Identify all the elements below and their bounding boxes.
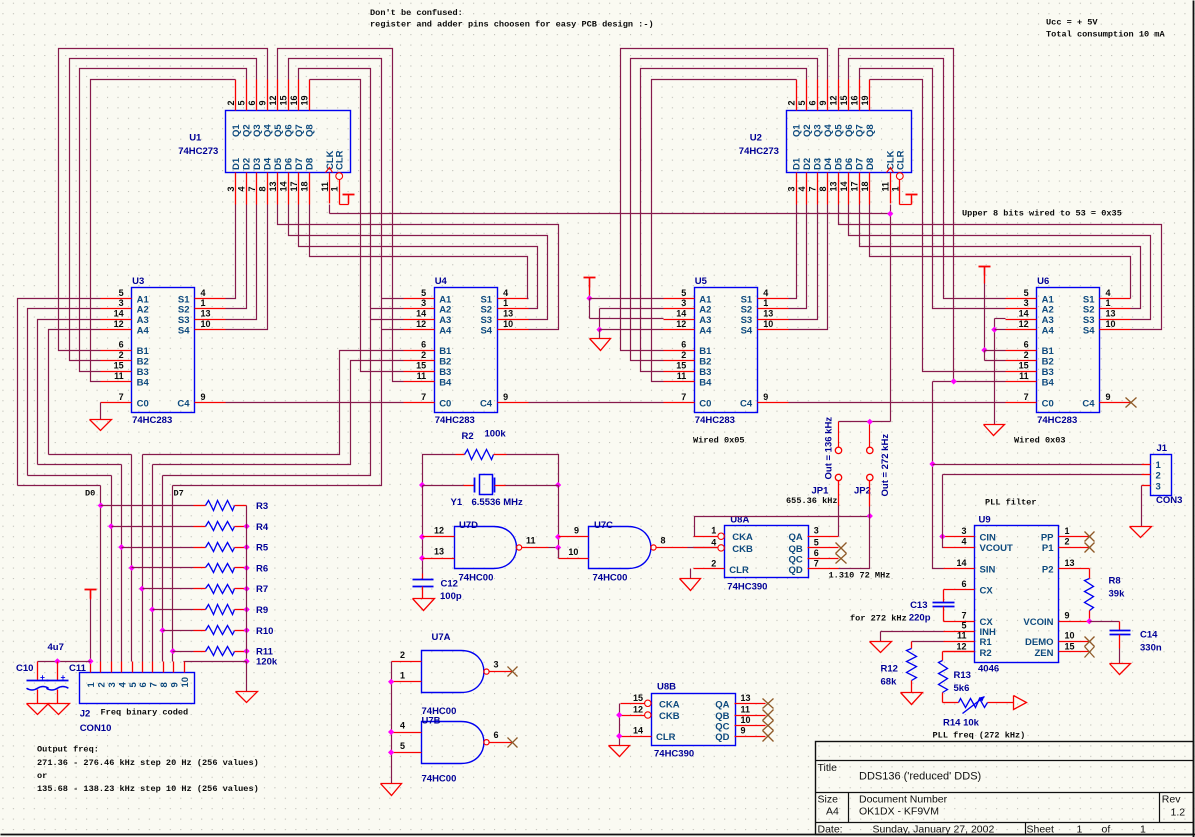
svg-text:Output freq:: Output freq:: [37, 745, 99, 755]
svg-text:13: 13: [201, 309, 211, 319]
U3.C0 to ground: [90, 403, 112, 431]
svg-text:10: 10: [503, 319, 513, 329]
svg-text:3: 3: [119, 298, 124, 308]
svg-text:Freq binary coded: Freq binary coded: [101, 708, 189, 718]
svg-text:10: 10: [1106, 319, 1116, 329]
svg-text:U5: U5: [695, 276, 708, 287]
svg-text:7: 7: [421, 392, 426, 402]
svg-text:1: 1: [330, 186, 340, 191]
U5 A2/A4 to ground: [590, 309, 664, 351]
svg-text:A1: A1: [1042, 294, 1055, 305]
svg-text:D7: D7: [174, 488, 184, 498]
svg-text:7: 7: [1024, 392, 1029, 402]
svg-text:1: 1: [86, 682, 97, 688]
wire U1.Q4 to U3.B1: [59, 49, 268, 351]
svg-text:D7: D7: [855, 158, 866, 170]
svg-text:Rev: Rev: [1162, 794, 1181, 806]
svg-text:11: 11: [957, 631, 967, 641]
svg-text:74HC283: 74HC283: [435, 415, 475, 426]
svg-text:18: 18: [860, 181, 870, 191]
svg-text:A2: A2: [699, 305, 711, 316]
svg-text:135.68 - 138.23 kHz step 10 Hz: 135.68 - 138.23 kHz step 10 Hz (256 valu…: [37, 784, 259, 794]
resistor R13 5k6 and R14 pot: [933, 652, 1027, 741]
svg-text:QB: QB: [715, 711, 729, 722]
svg-text:15: 15: [1065, 641, 1075, 651]
svg-text:3: 3: [787, 186, 797, 191]
svg-text:R6: R6: [256, 563, 268, 574]
svg-text:B2: B2: [699, 357, 711, 368]
svg-text:330n: 330n: [1140, 643, 1162, 654]
svg-text:C0: C0: [699, 398, 711, 409]
counter U8B 74HC390: [621, 682, 766, 760]
svg-text:S4: S4: [178, 326, 190, 337]
svg-text:655.36 kHz: 655.36 kHz: [786, 496, 838, 506]
adder U5 74HC283: [664, 276, 789, 426]
svg-text:QC: QC: [789, 554, 803, 565]
svg-text:A4: A4: [137, 326, 150, 337]
connector J2 CON10: [80, 662, 195, 735]
net D1 vertical: [111, 476, 113, 662]
svg-text:A1: A1: [137, 294, 150, 305]
svg-text:6: 6: [961, 579, 966, 589]
svg-text:10: 10: [763, 319, 773, 329]
svg-text:74HC283: 74HC283: [132, 415, 172, 426]
svg-text:6: 6: [808, 100, 818, 105]
wire U1.D8 to U4.S1: [310, 205, 529, 299]
svg-text:D2: D2: [242, 158, 253, 170]
jumper JP1: [812, 447, 842, 496]
svg-text:B1: B1: [137, 346, 150, 357]
counter U8A 74HC390: [694, 514, 839, 592]
svg-text:S4: S4: [1083, 326, 1095, 337]
svg-text:QD: QD: [715, 732, 729, 743]
svg-text:10: 10: [741, 715, 751, 725]
resistor R6: [132, 563, 269, 574]
connector J1 CON3: [1142, 443, 1183, 506]
svg-text:Q6: Q6: [844, 124, 855, 137]
svg-text:Don't be confused:: Don't be confused:: [370, 8, 463, 18]
svg-text:Document Number: Document Number: [859, 794, 948, 806]
svg-text:14: 14: [633, 726, 643, 736]
svg-text:3: 3: [961, 526, 966, 536]
svg-text:QB: QB: [789, 544, 803, 555]
U6 A3/A4 to ground: [984, 319, 1006, 436]
svg-text:Q5: Q5: [834, 124, 845, 137]
svg-text:C0: C0: [137, 398, 149, 409]
svg-text:R10: R10: [256, 626, 273, 637]
svg-text:S1: S1: [178, 294, 190, 305]
svg-text:for 272 kHz: for 272 kHz: [850, 614, 907, 624]
svg-text:D6: D6: [844, 158, 855, 170]
svg-text:9: 9: [763, 392, 768, 402]
svg-text:Ucc = + 5V: Ucc = + 5V: [1046, 18, 1098, 28]
svg-text:6: 6: [247, 100, 257, 105]
resistor R7: [143, 584, 269, 595]
capacitor C13 220p: [909, 590, 955, 624]
wire U1.Q5 to U4.B4: [278, 49, 404, 382]
svg-text:39k: 39k: [1109, 589, 1126, 600]
register U2 74HC273: [739, 80, 912, 205]
svg-text:B3: B3: [137, 367, 149, 378]
svg-text:R4: R4: [256, 522, 269, 533]
svg-text:4: 4: [201, 288, 206, 298]
svg-text:74HC390: 74HC390: [727, 581, 767, 592]
U9 CIN/VCOUT to J1.2 net: [939, 475, 945, 548]
wire U3.S4 to U1.D4: [226, 205, 268, 330]
svg-text:2: 2: [97, 682, 108, 687]
svg-text:68k: 68k: [881, 677, 898, 688]
PLL U9 4046: [944, 515, 1090, 675]
svg-text:9: 9: [574, 526, 579, 536]
svg-text:A1: A1: [699, 294, 712, 305]
wire U1.Q7 to U4.A2 and bus D6: [163, 69, 371, 476]
svg-text:2: 2: [421, 350, 426, 360]
U8B outputs no-connect: [763, 699, 774, 709]
svg-text:6: 6: [1024, 340, 1029, 350]
resistor R9: [153, 605, 269, 617]
svg-text:P2: P2: [1042, 565, 1054, 576]
svg-text:DEMO: DEMO: [1025, 637, 1054, 648]
svg-text:11: 11: [881, 182, 891, 192]
svg-text:C0: C0: [1042, 398, 1054, 409]
svg-text:Y1: Y1: [451, 497, 463, 508]
svg-text:10: 10: [568, 547, 578, 557]
svg-text:74HC00: 74HC00: [459, 573, 494, 584]
svg-text:8: 8: [661, 536, 666, 546]
svg-text:Q5: Q5: [273, 124, 284, 137]
svg-text:100p: 100p: [440, 591, 462, 602]
svg-text:Q4: Q4: [263, 124, 274, 137]
svg-text:S1: S1: [741, 294, 753, 305]
wire carry U5.C4 to U6.C0: [789, 402, 1006, 404]
wire bus D3 to U3.A4: [49, 330, 101, 455]
gate U7C 74HC00: [555, 520, 719, 584]
resistor R5: [122, 543, 269, 554]
svg-text:14: 14: [839, 181, 849, 191]
wire U1.Q3 to U3.B2: [70, 59, 257, 361]
adder U3 74HC283: [101, 276, 226, 426]
U2 CLR to VCC supply: [900, 195, 918, 205]
svg-text:12: 12: [416, 319, 426, 329]
svg-text:S2: S2: [480, 305, 492, 316]
wire J1.1 from MSB junction: [933, 464, 1142, 466]
svg-text:C4: C4: [740, 398, 753, 409]
svg-text:15: 15: [633, 693, 643, 703]
svg-text:C10: C10: [16, 663, 33, 674]
svg-text:8: 8: [818, 186, 828, 191]
wire U1.D6 to U4.S3: [289, 205, 548, 320]
svg-text:CKA: CKA: [659, 699, 680, 710]
svg-text:3: 3: [1156, 482, 1161, 493]
svg-text:5: 5: [1024, 288, 1029, 298]
gate U7B 74HC00: [392, 716, 518, 785]
U8B inputs to ground: [609, 704, 630, 757]
svg-text:74HC283: 74HC283: [695, 415, 735, 426]
svg-text:B4: B4: [137, 377, 150, 388]
svg-text:B4: B4: [1042, 377, 1055, 388]
svg-text:Wired 0x03: Wired 0x03: [1014, 436, 1066, 446]
svg-text:SIN: SIN: [980, 565, 996, 576]
svg-text:JP2: JP2: [854, 485, 871, 496]
svg-text:CON3: CON3: [1156, 495, 1182, 506]
svg-text:S3: S3: [178, 315, 190, 326]
svg-text:U7B: U7B: [422, 716, 441, 727]
svg-text:1: 1: [1065, 526, 1070, 536]
svg-text:74HC390: 74HC390: [654, 749, 694, 760]
svg-text:A3: A3: [137, 315, 149, 326]
svg-text:U8B: U8B: [657, 682, 676, 693]
svg-text:4: 4: [1106, 288, 1111, 298]
svg-text:12: 12: [956, 641, 966, 651]
svg-text:8: 8: [159, 682, 170, 687]
svg-text:6: 6: [494, 730, 499, 740]
gate U7A 74HC00: [392, 632, 518, 717]
wire bus D4 to U4.B1: [143, 351, 404, 455]
svg-text:A4: A4: [1042, 326, 1055, 337]
svg-text:QA: QA: [715, 699, 729, 710]
svg-text:Q3: Q3: [252, 124, 263, 137]
svg-text:9: 9: [258, 100, 268, 105]
svg-text:D4: D4: [823, 157, 834, 170]
wire U2.Q1 to U5.B4: [652, 80, 797, 382]
svg-text:S3: S3: [480, 315, 492, 326]
svg-text:S2: S2: [178, 305, 190, 316]
svg-text:R2: R2: [462, 431, 474, 442]
svg-text:Total consumption 10 mA: Total consumption 10 mA: [1046, 30, 1165, 40]
svg-text:Size: Size: [818, 794, 839, 806]
svg-text:R7: R7: [256, 584, 268, 595]
svg-text:13: 13: [434, 547, 444, 557]
capacitor C11 4u7: [46, 658, 86, 714]
svg-text:18: 18: [300, 181, 310, 191]
svg-text:PP: PP: [1041, 533, 1054, 544]
svg-text:PLL filter: PLL filter: [985, 498, 1037, 508]
svg-text:7: 7: [681, 392, 686, 402]
svg-text:14: 14: [956, 558, 966, 568]
svg-text:CLR: CLR: [895, 150, 906, 170]
svg-text:13: 13: [1065, 558, 1075, 568]
svg-text:U3: U3: [132, 276, 144, 287]
svg-text:4: 4: [400, 721, 405, 731]
wire U2.Q5 to U6.B4 and MSB net: [839, 49, 954, 382]
resistor R12 68k: [881, 642, 944, 705]
svg-text:Q4: Q4: [823, 124, 834, 137]
svg-text:B2: B2: [439, 357, 451, 368]
svg-text:13: 13: [763, 309, 773, 319]
svg-text:2: 2: [400, 650, 405, 660]
svg-text:1: 1: [1106, 298, 1111, 308]
svg-text:74HC00: 74HC00: [422, 774, 457, 785]
U7A/U7B inputs to ground: [381, 662, 402, 796]
svg-text:B2: B2: [1042, 357, 1054, 368]
svg-text:ZEN: ZEN: [1035, 648, 1054, 659]
resistor R10: [163, 626, 274, 637]
svg-text:12: 12: [434, 526, 444, 536]
svg-text:3: 3: [421, 298, 426, 308]
svg-text:D5: D5: [273, 157, 284, 170]
svg-text:S4: S4: [480, 326, 492, 337]
svg-text:5: 5: [681, 288, 686, 298]
svg-text:7: 7: [814, 558, 819, 568]
wire U1.D5 to U4.S4: [278, 205, 559, 330]
svg-text:R14 10k: R14 10k: [943, 718, 980, 729]
svg-text:B3: B3: [699, 367, 711, 378]
svg-text:U6: U6: [1037, 276, 1049, 287]
net D2 vertical: [121, 465, 123, 662]
resistor R3: [101, 501, 269, 513]
svg-text:16: 16: [289, 95, 299, 105]
wire U3.S2 to U1.D2: [226, 205, 247, 309]
svg-text:B3: B3: [439, 367, 451, 378]
svg-text:4: 4: [503, 288, 508, 298]
svg-text:74HC00: 74HC00: [593, 573, 628, 584]
svg-text:A4: A4: [826, 806, 839, 818]
svg-text:D3: D3: [252, 158, 263, 170]
svg-text:CLR: CLR: [656, 732, 676, 743]
svg-text:B4: B4: [439, 377, 452, 388]
svg-text:11: 11: [1019, 371, 1029, 381]
svg-text:5: 5: [797, 100, 807, 105]
svg-text:10: 10: [1065, 631, 1075, 641]
svg-text:6: 6: [681, 340, 686, 350]
svg-text:A2: A2: [1042, 305, 1054, 316]
svg-text:7: 7: [961, 611, 966, 621]
svg-text:B1: B1: [1042, 346, 1055, 357]
svg-text:6: 6: [814, 548, 819, 558]
U1 CLR to VCC supply: [340, 195, 355, 205]
resistor R8 39k: [1085, 569, 1126, 622]
svg-text:14: 14: [676, 309, 686, 319]
wire J1.2 from VCOUT net: [943, 474, 1142, 476]
svg-text:A2: A2: [137, 305, 149, 316]
wire U5.S4 to U2.D4: [789, 205, 828, 330]
svg-text:R12: R12: [881, 664, 898, 675]
svg-text:4u7: 4u7: [48, 642, 64, 653]
svg-text:C4: C4: [480, 398, 493, 409]
svg-text:D6: D6: [284, 158, 295, 170]
svg-text:2: 2: [711, 558, 716, 568]
capacitor C12 100p: [413, 574, 462, 611]
svg-text:QC: QC: [715, 722, 729, 733]
svg-text:B2: B2: [137, 357, 149, 368]
svg-text:D8: D8: [305, 158, 316, 170]
svg-text:Q3: Q3: [813, 124, 824, 137]
svg-text:OK1DX - KF9VM: OK1DX - KF9VM: [859, 806, 939, 818]
svg-text:A1: A1: [439, 294, 452, 305]
svg-text:P1: P1: [1042, 543, 1054, 554]
svg-text:11: 11: [677, 371, 687, 381]
svg-text:QD: QD: [789, 565, 803, 576]
svg-text:R9: R9: [256, 605, 268, 616]
svg-text:2: 2: [1024, 350, 1029, 360]
svg-text:J2: J2: [80, 709, 91, 720]
svg-text:or: or: [37, 771, 47, 781]
svg-text:Q1: Q1: [231, 124, 242, 137]
svg-text:14: 14: [416, 309, 426, 319]
svg-text:6.5536 MHz: 6.5536 MHz: [472, 497, 523, 508]
svg-text:R8: R8: [1109, 576, 1121, 587]
svg-text:U7C: U7C: [594, 520, 613, 531]
svg-text:S3: S3: [741, 315, 753, 326]
svg-text:Out = 272 kHz: Out = 272 kHz: [880, 434, 891, 497]
svg-text:5: 5: [814, 537, 819, 547]
svg-text:15: 15: [416, 361, 426, 371]
register U1 74HC273: [178, 80, 350, 205]
svg-text:4: 4: [237, 186, 247, 191]
svg-text:CLR: CLR: [335, 150, 346, 170]
svg-text:14: 14: [279, 181, 289, 191]
svg-text:12: 12: [829, 95, 839, 105]
wire U2.Q4 to U5.B1: [621, 49, 828, 351]
svg-text:3: 3: [1024, 298, 1029, 308]
gate U7D 74HC00: [419, 520, 561, 584]
svg-text:15: 15: [676, 361, 686, 371]
svg-text:120k: 120k: [256, 657, 278, 668]
svg-text:9: 9: [1106, 392, 1111, 402]
U6 B1/B2 to VCC: [979, 267, 1006, 361]
wire U2.D7 to U6.S2: [860, 205, 1141, 309]
svg-text:CON10: CON10: [80, 723, 112, 734]
svg-text:U4: U4: [435, 276, 448, 287]
svg-text:R3: R3: [256, 501, 268, 512]
U9 INH to ground: [870, 632, 944, 653]
svg-text:11: 11: [320, 182, 330, 192]
svg-text:CKB: CKB: [732, 544, 753, 555]
net D3 vertical: [131, 455, 133, 662]
svg-text:9: 9: [1065, 611, 1070, 621]
svg-text:5: 5: [119, 288, 124, 298]
svg-text:15: 15: [1019, 361, 1029, 371]
svg-text:J1: J1: [1157, 443, 1168, 454]
svg-text:11: 11: [526, 536, 536, 546]
bus segment D3: [49, 454, 132, 456]
wire J1.3 to ground: [1130, 486, 1152, 538]
svg-text:A2: A2: [439, 305, 451, 316]
svg-text:U9: U9: [979, 515, 991, 526]
svg-text:2: 2: [787, 100, 797, 105]
wire bus D0 to U3.A1: [18, 299, 101, 486]
svg-text:1: 1: [400, 670, 405, 680]
svg-text:R1: R1: [980, 637, 993, 648]
svg-text:1: 1: [201, 298, 206, 308]
svg-text:VCOUT: VCOUT: [980, 543, 1013, 554]
wire C10/C11 to J2 pin1: [38, 661, 91, 663]
svg-text:Wired 0x05: Wired 0x05: [693, 436, 745, 446]
svg-text:4: 4: [117, 682, 128, 688]
svg-text:1: 1: [711, 526, 716, 536]
svg-text:S3: S3: [1083, 315, 1095, 326]
svg-text:4: 4: [797, 186, 807, 191]
svg-text:11: 11: [417, 371, 427, 381]
svg-text:D4: D4: [263, 157, 274, 170]
svg-text:Q7: Q7: [855, 124, 866, 137]
svg-text:17: 17: [289, 181, 299, 191]
net D4 vertical: [142, 455, 144, 662]
svg-text:A3: A3: [699, 315, 711, 326]
svg-text:register and adder pins choose: register and adder pins choosen for easy…: [370, 20, 654, 30]
svg-text:Q8: Q8: [305, 124, 316, 137]
svg-text:12: 12: [268, 95, 278, 105]
svg-text:R13: R13: [954, 670, 971, 681]
svg-text:D1: D1: [231, 157, 242, 170]
svg-text:B3: B3: [1042, 367, 1054, 378]
svg-text:4: 4: [711, 537, 716, 547]
svg-text:1: 1: [503, 298, 508, 308]
svg-text:3: 3: [226, 186, 236, 191]
svg-text:Out = 136 kHz: Out = 136 kHz: [824, 417, 835, 480]
svg-text:B1: B1: [439, 346, 452, 357]
svg-text:14: 14: [1019, 309, 1029, 319]
